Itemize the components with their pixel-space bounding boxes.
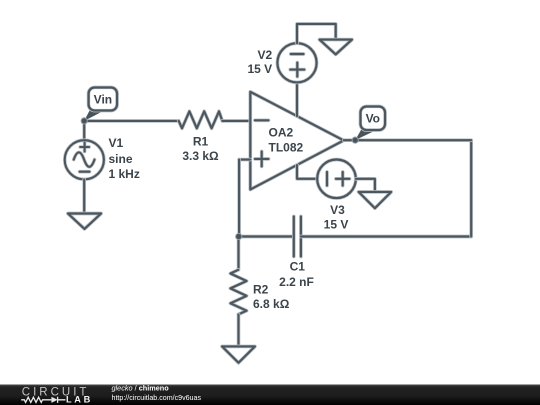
svg-text:V2: V2 bbox=[258, 48, 273, 62]
credits bbox=[112, 384, 202, 403]
wire bbox=[344, 138, 472, 142]
svg-text:3.3 kΩ: 3.3 kΩ bbox=[182, 149, 219, 163]
svg-text:15 V: 15 V bbox=[248, 62, 273, 76]
wire bbox=[295, 82, 299, 116]
svg-text:2.2 nF: 2.2 nF bbox=[279, 275, 314, 289]
svg-text:R2: R2 bbox=[253, 283, 269, 297]
footer bar bbox=[0, 385, 540, 405]
wire bbox=[297, 165, 317, 179]
label R1 value bbox=[182, 135, 219, 164]
label R2 value bbox=[253, 283, 290, 312]
wire bbox=[82, 121, 86, 140]
wire bbox=[237, 160, 241, 237]
capacitor C1 bbox=[294, 217, 301, 257]
op-amp OA2 bbox=[250, 92, 343, 190]
node Vo flag bbox=[352, 107, 385, 144]
label V3 value bbox=[324, 203, 349, 232]
ground bbox=[222, 346, 255, 362]
svg-text:OA2: OA2 bbox=[269, 126, 294, 140]
svg-text:1 kHz: 1 kHz bbox=[109, 167, 140, 181]
wire bbox=[82, 179, 86, 213]
svg-text:V3: V3 bbox=[330, 203, 345, 217]
svg-text:6.8 kΩ: 6.8 kΩ bbox=[253, 297, 290, 311]
ground bbox=[68, 214, 101, 229]
ground bbox=[320, 40, 353, 55]
svg-text:R1: R1 bbox=[193, 135, 209, 149]
wire bbox=[469, 140, 473, 236]
svg-text:C1: C1 bbox=[290, 260, 306, 274]
label OA2 bbox=[269, 126, 304, 155]
svg-text:Vin: Vin bbox=[94, 92, 112, 106]
voltage source V2 bbox=[277, 43, 316, 82]
resistor R2 bbox=[230, 270, 246, 315]
svg-text:V1: V1 bbox=[109, 136, 124, 150]
wire bbox=[239, 158, 250, 162]
wire bbox=[297, 24, 336, 43]
wire bbox=[222, 119, 250, 123]
CircuitLab logo bbox=[21, 387, 93, 405]
label C1 value bbox=[279, 260, 314, 290]
svg-text:15 V: 15 V bbox=[324, 218, 349, 232]
svg-text:Vo: Vo bbox=[366, 112, 380, 126]
resistor R1 bbox=[179, 111, 223, 128]
node Vin flag bbox=[81, 88, 117, 125]
svg-text:http://circuitlab.com/c9v6uas: http://circuitlab.com/c9v6uas bbox=[112, 394, 202, 402]
svg-text:LAB: LAB bbox=[66, 394, 93, 404]
wire bbox=[84, 119, 179, 123]
label V2 value bbox=[248, 48, 273, 76]
svg-text:TL082: TL082 bbox=[269, 141, 304, 155]
wire bbox=[237, 237, 241, 270]
svg-text:glecko / chimeno: glecko / chimeno bbox=[112, 384, 170, 393]
svg-text:sine: sine bbox=[109, 152, 133, 166]
wire bbox=[237, 314, 241, 346]
voltage source V1 bbox=[65, 140, 104, 179]
wire bbox=[301, 235, 471, 239]
label V1 value bbox=[109, 136, 140, 181]
ground bbox=[359, 192, 392, 208]
wire bbox=[239, 235, 294, 239]
wire bbox=[356, 179, 375, 192]
node junction dot bbox=[235, 233, 242, 240]
voltage source V3 bbox=[317, 160, 356, 199]
